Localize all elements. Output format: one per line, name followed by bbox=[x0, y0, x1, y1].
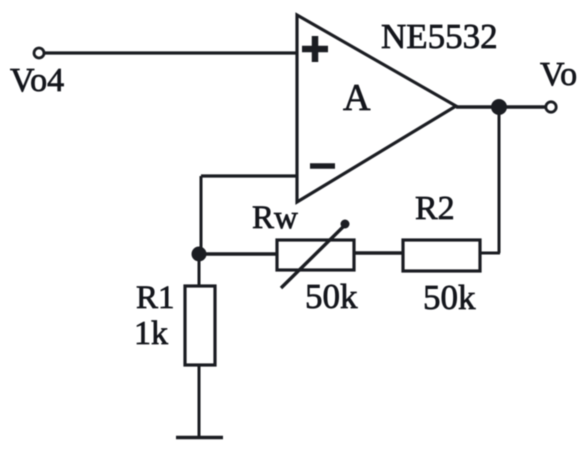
wire op-amp output bbox=[456, 105, 546, 108]
svg-text:50k: 50k bbox=[305, 277, 358, 316]
potentiometer Rw bbox=[277, 240, 354, 270]
wire Vo4 to op-amp + input bbox=[45, 51, 297, 54]
svg-text:1k: 1k bbox=[134, 315, 168, 352]
resistor R1 bbox=[185, 286, 215, 365]
wire output node down bbox=[498, 107, 501, 253]
svg-text:Rw: Rw bbox=[252, 200, 298, 236]
svg-text:Vo4: Vo4 bbox=[10, 62, 64, 99]
svg-text:R1: R1 bbox=[136, 280, 175, 316]
op-amp U1 triangle bbox=[297, 15, 456, 202]
wire Rw to R2 bbox=[354, 251, 403, 254]
wire feedback vertical bbox=[200, 176, 203, 254]
wire R1 to ground bbox=[198, 365, 201, 437]
svg-text:R2: R2 bbox=[415, 190, 455, 227]
svg-text:A: A bbox=[343, 77, 371, 119]
resistor R2 bbox=[403, 240, 480, 271]
potentiometer Rw wiper arrow bbox=[281, 220, 350, 289]
wire to R2 right bbox=[480, 252, 500, 255]
op-amp - pin mark bbox=[310, 163, 335, 169]
wire node to R1 bbox=[198, 254, 201, 286]
ground bbox=[176, 436, 223, 440]
wire feedback to - input bbox=[201, 174, 297, 177]
svg-text:NE5532: NE5532 bbox=[381, 17, 498, 56]
op-amp + pin mark bbox=[302, 36, 328, 62]
node output junction bbox=[491, 99, 507, 115]
terminal Vo4 bbox=[34, 48, 44, 58]
svg-text:50k: 50k bbox=[423, 278, 476, 317]
terminal Vo bbox=[546, 102, 556, 112]
svg-text:Vo: Vo bbox=[540, 56, 577, 93]
wire node to Rw bbox=[200, 252, 277, 256]
node inverting feedback junction bbox=[192, 247, 207, 262]
